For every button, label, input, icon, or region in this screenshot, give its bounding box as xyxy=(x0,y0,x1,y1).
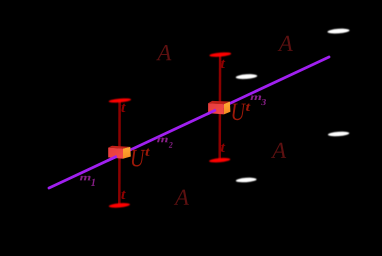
label t (line 1 top) xyxy=(121,104,125,112)
label U of box U2 xyxy=(232,104,246,121)
label m3 xyxy=(250,95,261,100)
label m2 xyxy=(157,138,168,143)
gate box U1 (left unitary cube) xyxy=(108,146,131,159)
label t (line 2 bottom) xyxy=(221,144,225,152)
label m1 xyxy=(80,176,91,181)
node: red disk bottom of line 2 xyxy=(209,157,230,163)
node: red disk top of line 1 xyxy=(109,98,132,104)
label t superscript of U1 xyxy=(146,149,151,156)
label A (bottom center) xyxy=(174,190,189,205)
wire: purple line segment in front of box U1 xyxy=(107,156,117,161)
label U of box U1 xyxy=(132,150,146,167)
node: white disk lower middle xyxy=(236,177,257,183)
wire: dark red vertical line 1 xyxy=(118,101,121,206)
label subscript 1 of m1 xyxy=(91,179,95,186)
label t (line 1 bottom) xyxy=(121,191,125,199)
wire: purple chain line xyxy=(49,57,329,188)
label subscript 2 of m2 xyxy=(169,142,173,148)
label A (top right) xyxy=(278,36,293,51)
node: white disk upper middle xyxy=(236,74,258,80)
wire: purple line segment in front of box U2 xyxy=(207,110,216,114)
label t superscript of U2 xyxy=(246,104,251,111)
node: white disk lower right xyxy=(328,131,350,137)
node: red disk top of line 2 xyxy=(209,52,231,58)
wire: dark red vertical line 2 xyxy=(218,55,221,161)
label subscript 3 of m3 xyxy=(261,99,266,105)
gate box U2 (right unitary cube) xyxy=(208,101,230,115)
label A (top left) xyxy=(156,45,171,60)
node: white disk upper right xyxy=(327,28,349,34)
node: red disk bottom of line 1 xyxy=(109,202,130,208)
label A (middle right) xyxy=(271,143,286,158)
label t (line 2 top) xyxy=(221,60,225,68)
